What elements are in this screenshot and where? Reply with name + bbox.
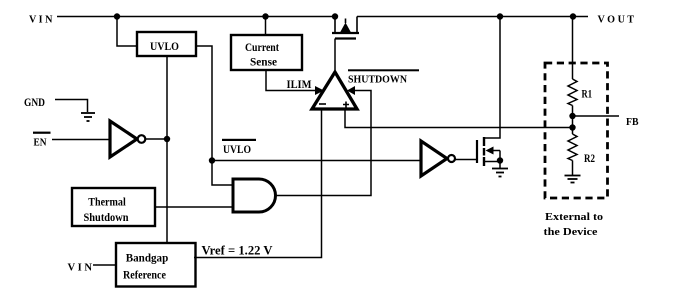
svg-text:External to: External to bbox=[545, 212, 603, 223]
wire UVLO output right and down to AND input bbox=[196, 46, 233, 185]
junction dot NMOS source-body bbox=[497, 157, 503, 163]
svg-text:Reference: Reference bbox=[123, 270, 166, 282]
node VIN label bbox=[29, 15, 53, 26]
wire Thermal Shutdown output to AND bbox=[154, 206, 233, 208]
wire UVLO bottom output down to Bandgap bbox=[166, 56, 168, 243]
node ILIM label bbox=[287, 77, 312, 91]
svg-text:GND: GND bbox=[24, 97, 45, 109]
transistor Q2 NMOS discharge bbox=[477, 137, 500, 166]
svg-text:V O U T: V O U T bbox=[598, 15, 635, 26]
svg-text:Bandgap: Bandgap bbox=[126, 253, 169, 265]
junction dot rail-NMOS drain bbox=[497, 13, 503, 19]
and-gate U6 bbox=[233, 179, 276, 212]
wire amp plus input to FB divider bbox=[345, 109, 573, 128]
wire NMOS drain to VOUT rail bbox=[484, 17, 500, 139]
wire UVLO-bar net to second inverter bbox=[212, 160, 421, 162]
svg-text:the Device: the Device bbox=[544, 227, 599, 238]
node SHUTDOWN label with overline bbox=[348, 69, 419, 85]
wire SHUTDOWN from AND output to amp bbox=[276, 91, 372, 196]
junction dot UVLO-bar net bbox=[209, 157, 215, 163]
svg-text:Vref = 1.22 V: Vref = 1.22 V bbox=[202, 244, 273, 258]
svg-text:Shutdown: Shutdown bbox=[84, 210, 129, 224]
wire ILIM from Current Sense to error amp bbox=[266, 70, 316, 91]
node VOUT label bbox=[598, 15, 635, 26]
svg-text:UVLO: UVLO bbox=[150, 41, 179, 53]
inverter U8 UVLO to discharge FET bbox=[421, 141, 455, 176]
arrowhead ILIM into amp bbox=[315, 86, 324, 95]
svg-text:Sense: Sense bbox=[250, 55, 278, 69]
wire inverter output to UVLO bottom line bbox=[146, 138, 168, 140]
svg-text:V I N: V I N bbox=[68, 263, 93, 274]
svg-text:Thermal: Thermal bbox=[88, 195, 126, 209]
node VIN label at bandgap bbox=[68, 263, 93, 274]
node GND label bbox=[24, 97, 45, 109]
junction dot FB-amp bbox=[569, 124, 575, 130]
block UVLO U2 bbox=[137, 32, 196, 56]
wire EN to inverter bbox=[52, 139, 110, 141]
junction dot rail-PMOS source bbox=[332, 13, 338, 19]
svg-text:R2: R2 bbox=[584, 151, 595, 165]
wire VIN to bandgap bbox=[93, 264, 116, 266]
svg-text:SHUTDOWN: SHUTDOWN bbox=[348, 75, 407, 86]
wire VOUT rail down to R1 bbox=[572, 17, 574, 80]
wire UVLO input from rail bbox=[117, 17, 137, 47]
node Vref label bbox=[202, 244, 273, 258]
svg-text:ILIM: ILIM bbox=[287, 77, 312, 91]
op-amp U1 error amplifier bbox=[312, 72, 357, 109]
transistor Q1 PMOS pass element bbox=[332, 17, 359, 39]
wire VIN rail left bbox=[57, 16, 335, 18]
wire Vref from bandgap to amp minus input bbox=[194, 109, 322, 258]
dashed box External to the Device bbox=[545, 63, 608, 198]
ground symbol at R2 bbox=[565, 161, 581, 183]
block Current Sense U3 bbox=[231, 35, 302, 70]
junction dot EN inverter output bbox=[164, 136, 170, 142]
block Bandgap Reference U7 bbox=[116, 243, 196, 287]
arrowhead SHUTDOWN into amp bbox=[347, 86, 355, 95]
svg-text:R1: R1 bbox=[582, 87, 593, 101]
wire VOUT rail right bbox=[357, 16, 588, 18]
svg-text:V I N: V I N bbox=[29, 15, 53, 26]
ground symbol at GND pin bbox=[81, 113, 95, 121]
inverter U4 EN input bbox=[110, 121, 145, 157]
wire FB output bbox=[573, 115, 620, 117]
junction dot rail-UVLO bbox=[114, 13, 120, 19]
junction dot rail-R1 bbox=[570, 13, 576, 19]
ground symbol at NMOS source bbox=[492, 161, 508, 177]
wire inverter output to NMOS gate bbox=[455, 159, 477, 161]
svg-text:Current: Current bbox=[245, 40, 279, 54]
wire R1 bottom through FB junctions to R2 bbox=[572, 106, 574, 135]
svg-text:UVLO: UVLO bbox=[223, 142, 251, 156]
junction dot R1-FB bbox=[569, 113, 575, 119]
resistor R2 bbox=[568, 134, 595, 165]
node EN label with overline bbox=[33, 132, 51, 149]
block Thermal Shutdown U5 bbox=[72, 188, 155, 226]
node FB label bbox=[626, 117, 639, 128]
wire GND to ground bbox=[55, 100, 88, 113]
svg-text:EN: EN bbox=[34, 138, 48, 149]
junction dot rail-CurrentSense bbox=[262, 13, 268, 19]
resistor R1 bbox=[568, 79, 592, 106]
wire Current Sense input from rail bbox=[265, 17, 267, 36]
svg-text:FB: FB bbox=[626, 117, 639, 128]
wire gate of Q1 to amp output bbox=[334, 39, 336, 71]
note External to the Device bbox=[544, 212, 604, 238]
node UVLO-bar label with overline bbox=[222, 139, 256, 156]
